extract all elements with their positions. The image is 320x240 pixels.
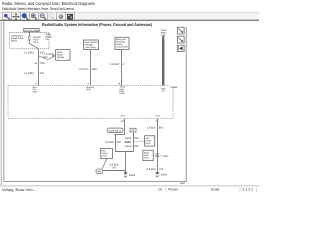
svg-text:G305: G305 <box>161 174 168 177</box>
toolbar buttons <box>3 12 75 20</box>
link icon 2 <box>177 36 184 43</box>
connector box A4 <box>130 128 136 132</box>
component box U1 <box>84 40 99 50</box>
svg-text:4846: 4846 <box>180 182 186 185</box>
button zoom-select <box>3 12 12 20</box>
toolbar strip <box>0 12 259 20</box>
svg-text:0.8 BLK: 0.8 BLK <box>105 141 114 144</box>
antenna pin label <box>161 88 166 91</box>
wire label 1.6 BLK 850 <box>147 126 164 129</box>
wire U2 to radio <box>121 50 123 86</box>
antenna mast coax <box>162 39 165 87</box>
harness box right B <box>143 150 153 160</box>
window background <box>0 0 259 194</box>
svg-text:Amp: Amp <box>86 88 91 91</box>
pin letter B (U2 wire) <box>119 82 121 85</box>
button zoom-window <box>21 12 30 20</box>
wire label 0.8 PPL 1807 <box>79 68 98 71</box>
svg-text:Block: Block <box>57 54 63 57</box>
svg-text:1 BLK: 1 BLK <box>125 137 132 140</box>
svg-text:1.6 ORN: 1.6 ORN <box>24 52 34 55</box>
wire terminal to ground wire <box>103 170 126 172</box>
link icon 1 <box>177 27 184 34</box>
svg-text:850: 850 <box>134 137 139 140</box>
branch wire to detail box <box>39 55 56 60</box>
button print <box>57 12 66 20</box>
svg-text:Radio/Audio System Information: Radio/Audio System Information: Power, G… <box>2 6 75 11</box>
svg-text:S408 Splice: S408 Splice <box>109 130 122 133</box>
status bar divider <box>0 185 259 187</box>
wire label 1.6 ORN 540 lower <box>24 72 45 75</box>
svg-text:1X: 1X <box>158 187 163 191</box>
svg-text:850: 850 <box>159 126 164 129</box>
pin letter A16 <box>121 120 126 123</box>
svg-text:850: 850 <box>134 145 139 148</box>
svg-text:750: 750 <box>111 167 116 170</box>
svg-text:1.6 BLK: 1.6 BLK <box>147 126 156 129</box>
ring terminal pill <box>96 169 103 174</box>
ground G305 <box>155 172 168 177</box>
svg-text:HOT AT ALL TIMES: HOT AT ALL TIMES <box>25 29 39 32</box>
wire label 0.8 BLK 850 <box>105 141 122 144</box>
wire U1 to radio <box>90 50 92 86</box>
connector C305 <box>153 154 169 158</box>
svg-text:Scale: Scale <box>211 187 220 191</box>
window title line 2 <box>2 6 75 11</box>
wire bus to ground <box>125 152 127 173</box>
diagram page frame <box>4 21 186 181</box>
wire splice right leg <box>133 132 135 152</box>
svg-text:750: 750 <box>159 168 164 171</box>
splice pack S408 <box>107 128 123 132</box>
svg-text:2 BLK: 2 BLK <box>125 145 132 148</box>
splice label S408 <box>125 141 145 144</box>
svg-text:1:1.2.1: 1:1.2.1 <box>243 187 253 191</box>
wire label 0.8 BLK 750 right <box>147 168 164 171</box>
svg-text:S408: S408 <box>125 141 132 144</box>
status bar fields <box>158 187 257 193</box>
svg-text:1700: 1700 <box>40 62 46 65</box>
pin letter D (fuse wire) <box>35 82 37 85</box>
wire fuse to radio <box>38 49 40 86</box>
wire label 2 BLK 850 <box>125 145 140 148</box>
svg-text:D: D <box>35 82 37 85</box>
status bar text left <box>2 188 36 192</box>
svg-text:Vehpg, Base Veh...: Vehpg, Base Veh... <box>2 188 36 192</box>
wire radio right gnd down <box>157 119 159 172</box>
svg-text:0.8 BLK: 0.8 BLK <box>147 168 156 171</box>
svg-text:Radio/Audio System Information: Radio/Audio System Information (Power, G… <box>42 22 153 27</box>
fuse block dashed box <box>10 32 49 49</box>
svg-text:0.8 GRY: 0.8 GRY <box>110 63 120 66</box>
wire label 1 BLK 850 <box>125 137 140 140</box>
diagram title <box>42 22 153 27</box>
wire bus <box>116 151 134 153</box>
svg-text:Fixed: Fixed <box>161 29 167 32</box>
svg-text:Details: Details <box>57 56 65 59</box>
radio pin name illum <box>120 86 126 96</box>
wire splice bottom bar <box>114 134 125 136</box>
radio pin name remote amp <box>86 86 94 91</box>
antenna symbol <box>162 34 165 38</box>
svg-text:Fuse: Fuse <box>57 51 63 54</box>
detail box (fuse block details) <box>56 50 70 61</box>
antenna label <box>161 29 167 35</box>
svg-text:540: 540 <box>43 56 48 59</box>
harness box left <box>101 148 113 158</box>
svg-text:0.8 PPL: 0.8 PPL <box>79 68 89 71</box>
wire label 1.6 ORN 540 upper <box>24 52 45 55</box>
link icon 3 <box>177 45 184 51</box>
wire harness diagonal <box>102 159 107 169</box>
harness box right A <box>145 136 155 146</box>
svg-text:Lamp: Lamp <box>120 92 126 95</box>
pin letter A5 <box>156 120 160 123</box>
svg-text:I/P: I/P <box>46 38 49 41</box>
hot-at-all-times box <box>24 28 39 32</box>
button zoom-prev disabled <box>48 12 57 20</box>
svg-text:Printer: Printer <box>168 187 179 191</box>
svg-text:Radio: Radio <box>171 86 178 89</box>
svg-text:G303: G303 <box>129 174 136 177</box>
svg-text:C305: C305 <box>163 155 169 158</box>
svg-text:Harn: Harn <box>146 142 152 145</box>
radio pin name batt <box>33 86 39 94</box>
radio pin name gnd left <box>120 115 125 118</box>
ground G303 <box>123 172 135 177</box>
component box U2 <box>115 37 129 49</box>
svg-text:1.6 ORN: 1.6 ORN <box>24 72 34 75</box>
svg-text:1807: 1807 <box>92 68 98 71</box>
window left border <box>0 21 2 185</box>
svg-text:Lamp Dome: Lamp Dome <box>116 46 129 49</box>
figure number <box>180 182 186 185</box>
svg-text:Grnd: Grnd <box>102 154 108 157</box>
wire label 0.8 GRY 4 <box>110 63 125 66</box>
button pan <box>12 12 21 20</box>
button zoom-out <box>39 12 48 20</box>
svg-text:Block: Block <box>11 39 18 42</box>
fuse block right note <box>46 33 55 41</box>
radio dashed box <box>8 86 173 119</box>
radio pin name gnd right <box>155 115 160 118</box>
svg-text:Timer Relay: Timer Relay <box>85 46 98 49</box>
svg-text:Mast: Mast <box>161 88 166 91</box>
svg-text:10 A: 10 A <box>33 41 38 44</box>
wire splice left leg <box>115 135 117 152</box>
button pages dark <box>66 12 75 20</box>
wire label 0.8 BLK 750 <box>110 164 119 170</box>
splice S217 <box>34 62 45 65</box>
fuse block left label <box>11 35 24 43</box>
wire radio gnd to splice <box>124 119 126 135</box>
divider under toolbar <box>0 19 259 21</box>
radio name label <box>171 86 178 89</box>
button zoom-in <box>30 12 39 20</box>
svg-text:Conn: Conn <box>144 156 150 159</box>
window title line 1 <box>2 1 96 6</box>
svg-text:850: 850 <box>117 141 122 144</box>
svg-text:540: 540 <box>40 72 45 75</box>
pin letter A (U1 wire) <box>87 82 89 85</box>
fuse F (RADIO fuse) <box>28 32 41 49</box>
svg-text:Mast: Mast <box>161 31 166 34</box>
branch label 1.6 ORN 540 <box>43 53 54 59</box>
